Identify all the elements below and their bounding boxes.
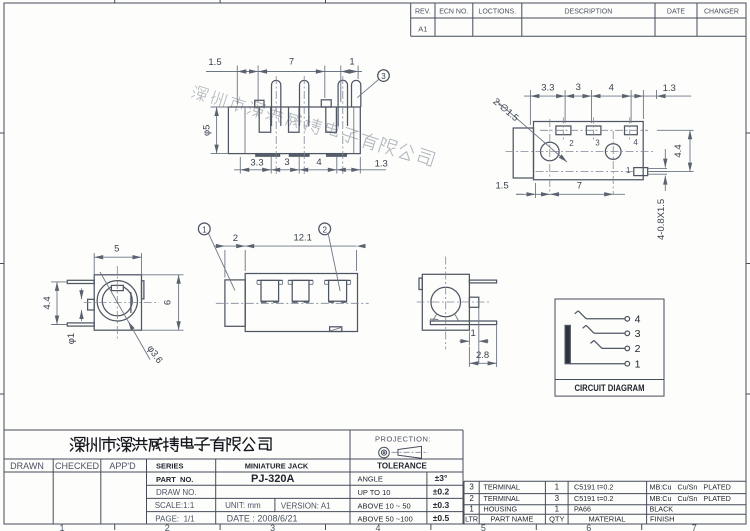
svg-text:CIRCUIT DIAGRAM: CIRCUIT DIAGRAM — [575, 383, 645, 393]
svg-text:7: 7 — [692, 523, 697, 531]
svg-text:7: 7 — [577, 181, 582, 192]
svg-text:1: 1 — [59, 523, 64, 531]
svg-text:ABOVE 50 ~100: ABOVE 50 ~100 — [358, 514, 413, 523]
svg-text:6: 6 — [163, 300, 174, 305]
svg-text:DRAW NO.: DRAW NO. — [156, 488, 197, 497]
svg-text:MATERIAL: MATERIAL — [589, 514, 626, 523]
svg-text:4: 4 — [609, 83, 614, 94]
svg-text:LOCTIONS.: LOCTIONS. — [478, 8, 516, 15]
svg-text:UNIT: mm: UNIT: mm — [225, 501, 261, 510]
svg-text:3: 3 — [469, 483, 474, 492]
svg-text:2: 2 — [165, 523, 170, 531]
svg-text:4: 4 — [375, 523, 380, 531]
svg-text:4.4: 4.4 — [673, 144, 684, 157]
svg-text:1.5: 1.5 — [495, 181, 508, 192]
svg-text:PART NAME: PART NAME — [491, 514, 534, 523]
svg-text:SERIES: SERIES — [156, 462, 184, 471]
svg-text:4: 4 — [635, 313, 641, 325]
svg-text:BLACK: BLACK — [650, 505, 674, 514]
svg-text:±0.3: ±0.3 — [433, 500, 450, 510]
svg-text:3: 3 — [270, 523, 275, 531]
svg-text:3: 3 — [595, 139, 600, 148]
svg-text:3: 3 — [576, 82, 581, 93]
svg-text:APP'D: APP'D — [109, 461, 136, 471]
svg-text:4: 4 — [316, 157, 321, 168]
svg-text:A1: A1 — [418, 25, 427, 34]
svg-text:QTY: QTY — [549, 514, 564, 523]
svg-text:1.3: 1.3 — [663, 83, 676, 94]
svg-text:PART NO.: PART NO. — [156, 475, 193, 484]
svg-text:3: 3 — [635, 328, 641, 340]
svg-text:3: 3 — [284, 157, 289, 168]
svg-text:3.3: 3.3 — [541, 83, 554, 94]
svg-text:4: 4 — [633, 138, 638, 147]
svg-text:4.4: 4.4 — [42, 296, 53, 309]
svg-text:±0.5: ±0.5 — [433, 513, 450, 523]
svg-text:CHECKED: CHECKED — [55, 461, 100, 471]
svg-text:C5191 t=0.2: C5191 t=0.2 — [574, 483, 613, 492]
svg-text:DESCRIPTION: DESCRIPTION — [564, 8, 612, 15]
svg-text:TERMINAL: TERMINAL — [484, 483, 520, 492]
svg-text:DATE: DATE — [667, 8, 685, 15]
svg-text:PJ-320A: PJ-320A — [251, 473, 294, 485]
svg-text:4-0.8X1.5: 4-0.8X1.5 — [656, 199, 667, 240]
svg-text:HOUSING: HOUSING — [484, 505, 518, 514]
svg-text:MB:Cu Cu/Sn PLATED: MB:Cu Cu/Sn PLATED — [650, 483, 731, 492]
svg-text:DRAWN: DRAWN — [10, 461, 44, 471]
svg-text:1: 1 — [471, 328, 476, 339]
svg-text:φ1: φ1 — [66, 333, 77, 344]
svg-text:1: 1 — [626, 166, 631, 175]
svg-text:MINIATURE JACK: MINIATURE JACK — [245, 462, 309, 471]
svg-text:2: 2 — [233, 233, 238, 244]
svg-text:2: 2 — [569, 139, 574, 148]
svg-text:±0.2: ±0.2 — [433, 487, 450, 497]
svg-text:7: 7 — [289, 57, 294, 68]
svg-text:TERMINAL: TERMINAL — [484, 494, 520, 503]
svg-text:2: 2 — [322, 226, 327, 235]
svg-text:±3°: ±3° — [435, 473, 448, 483]
svg-text:DATE : 2008/6/21: DATE : 2008/6/21 — [227, 514, 298, 524]
svg-text:REV.: REV. — [415, 8, 431, 15]
svg-text:UP TO 10: UP TO 10 — [358, 488, 391, 497]
svg-text:2: 2 — [469, 494, 474, 503]
svg-text:5: 5 — [481, 523, 486, 531]
svg-text:PAGE: 1/1: PAGE: 1/1 — [155, 514, 195, 523]
svg-text:TOLERANCE: TOLERANCE — [377, 462, 427, 471]
svg-text:ECN NO.: ECN NO. — [439, 8, 468, 15]
svg-text:12.1: 12.1 — [293, 233, 312, 244]
svg-text:6: 6 — [586, 523, 591, 531]
svg-text:1: 1 — [555, 505, 560, 514]
svg-text:ANGLE: ANGLE — [358, 475, 383, 484]
svg-text:1: 1 — [469, 505, 474, 514]
svg-text:1.5: 1.5 — [208, 57, 221, 68]
svg-text:CHANGER: CHANGER — [704, 8, 739, 15]
svg-text:1: 1 — [202, 226, 207, 235]
svg-text:2.8: 2.8 — [476, 350, 489, 361]
svg-text:VERSION: A1: VERSION: A1 — [281, 502, 331, 511]
svg-text:PROJECTION:: PROJECTION: — [375, 435, 431, 444]
svg-text:5: 5 — [114, 244, 119, 255]
svg-text:C5191 t=0.2: C5191 t=0.2 — [574, 494, 613, 503]
svg-text:FINISH: FINISH — [650, 514, 675, 523]
svg-text:1: 1 — [635, 358, 641, 370]
svg-text:1: 1 — [555, 483, 560, 492]
svg-text:3.3: 3.3 — [250, 158, 263, 169]
svg-text:ABOVE 10 ~ 50: ABOVE 10 ~ 50 — [358, 501, 411, 510]
svg-text:LTR: LTR — [465, 514, 478, 523]
svg-text:3: 3 — [555, 494, 560, 503]
svg-text:3: 3 — [381, 72, 386, 81]
svg-text:1: 1 — [349, 57, 354, 68]
svg-text:PA66: PA66 — [574, 505, 591, 514]
svg-text:1.3: 1.3 — [375, 159, 388, 170]
svg-text:φ5: φ5 — [202, 125, 213, 136]
svg-text:2: 2 — [635, 343, 641, 355]
svg-text:SCALE:1:1: SCALE:1:1 — [155, 501, 195, 510]
svg-text:MB:Cu Cu/Sn PLATED: MB:Cu Cu/Sn PLATED — [650, 494, 731, 503]
